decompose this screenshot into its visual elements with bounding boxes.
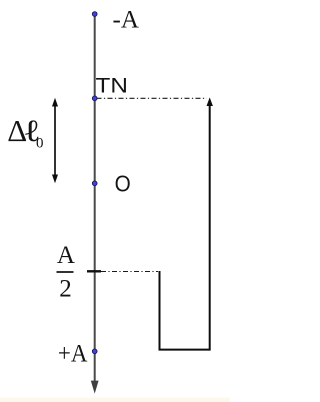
dash-dot line at A/2 level (101, 271, 158, 273)
label TN (96, 73, 128, 97)
svg-text:0: 0 (36, 136, 44, 152)
fraction bar (57, 271, 74, 273)
svg-text:2: 2 (59, 276, 71, 303)
label +A (58, 340, 88, 367)
point O dot (92, 181, 97, 186)
bottom cream strip (0, 398, 230, 402)
point -A (top dot) (92, 12, 97, 17)
axis line (vertical) (94, 14, 96, 381)
svg-text:TN: TN (96, 73, 128, 97)
tick mark A/2 on axis (87, 270, 101, 272)
svg-text:O: O (115, 170, 131, 196)
axis arrowhead (down) (91, 381, 99, 394)
svg-text:A: A (57, 242, 75, 269)
double arrow for delta-l0 (54, 103, 56, 178)
U-shaped path (right) (160, 105, 210, 350)
dash-dot line at TN level (97, 97, 207, 99)
label O (115, 170, 131, 196)
svg-text:-A: -A (113, 7, 139, 34)
point TN dot (92, 96, 97, 101)
up arrowhead of right vertical (207, 97, 213, 106)
svg-text:+A: +A (58, 340, 88, 367)
point +A dot (92, 349, 97, 354)
